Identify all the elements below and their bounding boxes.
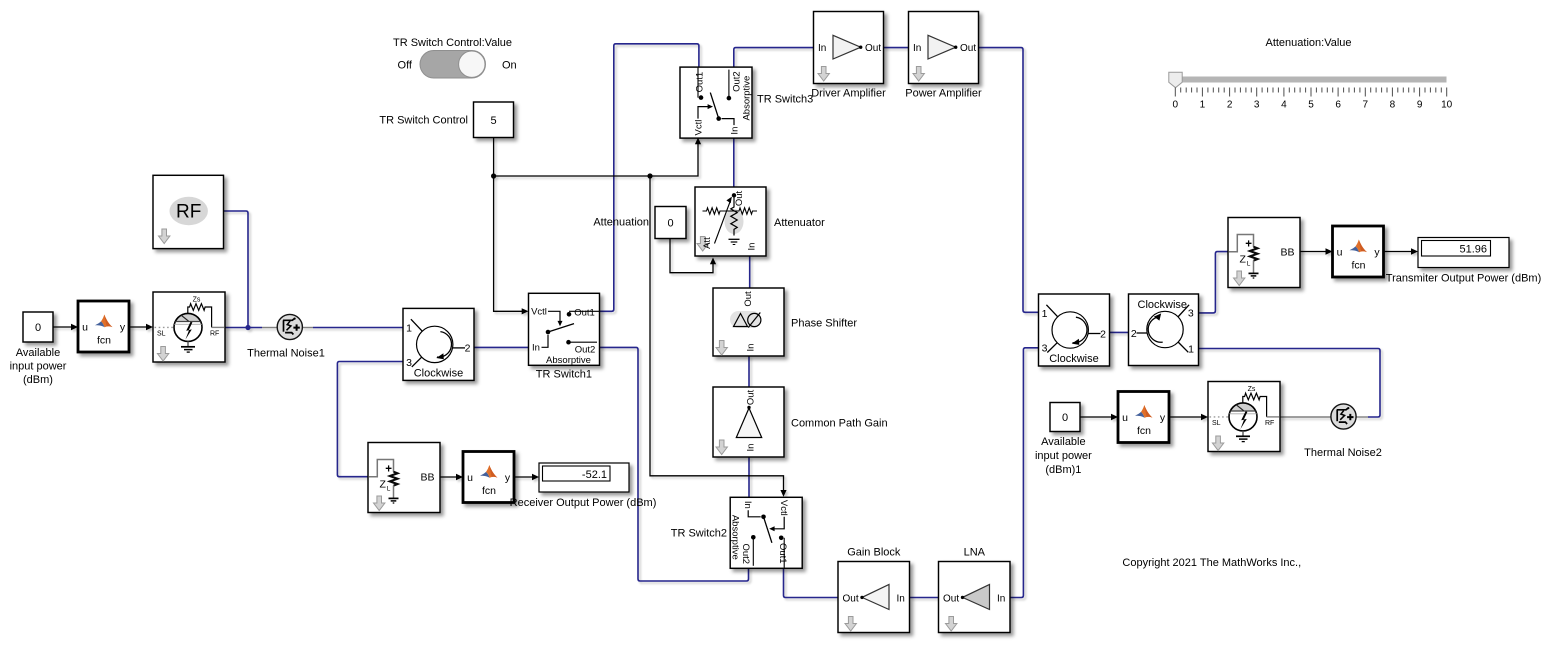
wire: fcn2 y to Receiver display — [514, 474, 539, 480]
svg-text:In: In — [997, 593, 1005, 604]
svg-text:0: 0 — [667, 218, 673, 230]
svg-text:Clockwise: Clockwise — [1138, 299, 1188, 311]
svg-text:10: 10 — [1441, 100, 1453, 111]
svg-text:In: In — [745, 344, 756, 352]
wire: TR Switch2 Out1 to Gain Block Out — [784, 568, 839, 598]
svg-text:Off: Off — [398, 60, 413, 72]
constant: TR Switch Control value 5 — [379, 102, 513, 138]
block: MATLAB Function fcn2 — [463, 452, 514, 503]
block: TR Switch1 — [529, 293, 600, 380]
block: Driver Amplifier — [811, 12, 886, 100]
svg-text:Attenuator: Attenuator — [774, 217, 825, 229]
block: Gain Block — [838, 546, 910, 632]
wire: fcn1 y to source1 SL — [129, 324, 153, 330]
svg-text:Out: Out — [865, 43, 881, 54]
block: Circulator1 Clockwise — [403, 308, 474, 380]
svg-text:Thermal Noise1: Thermal Noise1 — [247, 347, 325, 359]
block: Power Amplifier — [905, 12, 982, 100]
svg-text:On: On — [502, 60, 517, 72]
svg-text:input power: input power — [1035, 450, 1092, 462]
wire: TR Switch3 In to Attenuator Out — [733, 137, 735, 188]
constant: Available input power (dBm) value 0 — [10, 312, 67, 386]
svg-text:RF: RF — [176, 202, 201, 223]
svg-text:input power: input power — [10, 361, 67, 373]
svg-text:8: 8 — [1390, 100, 1396, 111]
block: Thermal Noise1 — [247, 314, 325, 359]
control: TR Switch Control:Value toggle — [393, 37, 517, 78]
wire: Driver Amplifier Out to Power Amplifier In — [884, 47, 909, 49]
svg-text:LNA: LNA — [964, 546, 986, 558]
wire: junction C to TR Switch3 Vctl — [650, 138, 701, 177]
wire: TR Switch3 Out2 to Driver Amplifier In — [734, 48, 814, 68]
block: TR Switch2 (rotated +90) — [671, 497, 802, 568]
svg-text:TR Switch Control: TR Switch Control — [379, 114, 468, 126]
junction B dot — [491, 173, 496, 178]
svg-text:Clockwise: Clockwise — [414, 368, 464, 380]
block: LNA — [939, 546, 1011, 632]
wire: Thermal Noise2 left gray segment to source2 RF — [1280, 416, 1331, 418]
svg-text:5: 5 — [1308, 100, 1314, 111]
wire: Power Amplifier Out to Circulator2 port 1 — [979, 48, 1039, 313]
svg-text:1: 1 — [1200, 100, 1206, 111]
block: Thermal Noise2 — [1304, 404, 1382, 459]
wire: TR Switch1 Out2 to TR Switch2 Out2 — [599, 347, 748, 581]
svg-text:Power Amplifier: Power Amplifier — [905, 87, 982, 99]
wire: Circulator2 port 2 to Circulator3 port 2 — [1109, 331, 1129, 333]
svg-text:4: 4 — [1281, 100, 1287, 111]
svg-text:Att: Att — [702, 237, 713, 249]
wire: junction C to TR Switch2 Vctl — [650, 176, 787, 497]
junction C dot — [647, 173, 652, 178]
svg-text:In: In — [897, 593, 905, 604]
block: Circulator2 Clockwise — [1039, 294, 1110, 366]
svg-text:In: In — [913, 43, 921, 54]
block: MATLAB Function fcn1 — [78, 301, 129, 352]
svg-text:Receiver Output Power (dBm): Receiver Output Power (dBm) — [510, 497, 657, 509]
block: Phase Shifter — [713, 288, 857, 356]
wire: TR Switch1 Out1 to TR Switch3 Out1 — [599, 44, 699, 312]
svg-text:(dBm)1: (dBm)1 — [1045, 464, 1081, 476]
wire: junction B to junction C — [494, 175, 650, 177]
wire: RF config block to node A — [224, 211, 249, 328]
attenuator variable arrow — [715, 193, 737, 243]
wire: junction B to TR Switch1 Vctl — [494, 176, 529, 314]
wire: Available input power to fcn1 — [53, 324, 78, 330]
svg-text:Out: Out — [960, 43, 976, 54]
block: source1 SL-to-RF converter — [153, 292, 225, 362]
wire: Thermal Noise1 to Circulator port 1 — [313, 327, 403, 329]
svg-text:TR Switch3: TR Switch3 — [757, 94, 813, 106]
svg-text:TR Switch Control:Value: TR Switch Control:Value — [393, 37, 512, 49]
svg-text:Thermal Noise2: Thermal Noise2 — [1304, 447, 1382, 459]
annotation: copyright — [1122, 557, 1301, 569]
svg-text:(dBm): (dBm) — [23, 374, 53, 386]
display: Transmiter Output Power (dBm) — [1386, 238, 1541, 285]
wire: TR Switch Control constant down to junction B — [493, 138, 495, 177]
block: BB load1 — [368, 443, 440, 513]
svg-text:1: 1 — [1188, 343, 1194, 355]
svg-text:Out: Out — [843, 593, 859, 604]
svg-text:2: 2 — [1131, 328, 1137, 340]
svg-text:3: 3 — [1254, 100, 1260, 111]
wire: LNA In to Circulator2 port 3 — [1010, 348, 1039, 598]
svg-text:In: In — [818, 43, 826, 54]
attenuator pi-network resistors — [703, 198, 757, 245]
block: Circulator3 Clockwise (mirrored) — [1129, 294, 1199, 366]
svg-text:Transmiter Output Power (dBm): Transmiter Output Power (dBm) — [1386, 273, 1541, 285]
svg-text:51.96: 51.96 — [1459, 244, 1487, 256]
svg-text:Attenuation:Value: Attenuation:Value — [1265, 37, 1351, 49]
svg-text:Attenuation: Attenuation — [593, 217, 649, 229]
svg-text:0: 0 — [35, 322, 41, 334]
svg-text:Clockwise: Clockwise — [1049, 353, 1099, 365]
wire: fcn4 y to source2 SL — [1170, 414, 1208, 420]
svg-text:TR Switch2: TR Switch2 — [671, 528, 727, 540]
svg-text:6: 6 — [1335, 100, 1341, 111]
display: Receiver Output Power (dBm) — [510, 463, 657, 509]
svg-text:Out: Out — [943, 593, 959, 604]
block: TR Switch3 (rotated -90) — [680, 67, 813, 138]
svg-text:0: 0 — [1062, 412, 1068, 424]
wire: Circulator1 port 3 to BB load1 — [337, 362, 403, 477]
wire: fcn3 y to Transmitter display — [1384, 248, 1418, 254]
wire: Available input power 1 to fcn4 u — [1080, 414, 1118, 420]
svg-text:7: 7 — [1363, 100, 1369, 111]
block: MATLAB Function fcn3 — [1333, 226, 1384, 277]
block: RF configuration — [153, 175, 224, 248]
svg-text:Out: Out — [743, 291, 754, 307]
svg-text:Out: Out — [745, 389, 756, 405]
wire: Thermal Noise1 to blue run (gray) — [302, 327, 314, 329]
svg-text:-52.1: -52.1 — [582, 469, 607, 481]
wire: Circulator3 port 1 to Thermal Noise2 (blue part) — [1199, 349, 1380, 418]
block: Attenuator (rotated) — [695, 187, 825, 256]
block: MATLAB Function fcn4 — [1118, 392, 1169, 443]
block: source2 SL-to-RF converter — [1208, 382, 1280, 452]
svg-text:5: 5 — [490, 115, 496, 127]
svg-text:Available: Available — [1041, 436, 1085, 448]
slider tick marks and numbers — [1173, 88, 1453, 111]
node A junction dot — [245, 325, 250, 330]
svg-text:Available: Available — [16, 347, 60, 359]
wire: BB load2 to fcn3 u — [1299, 248, 1333, 254]
svg-text:Common Path Gain: Common Path Gain — [791, 418, 888, 430]
svg-text:TR Switch1: TR Switch1 — [536, 368, 592, 380]
wire: Thermal Noise2 right gray segment — [1356, 416, 1368, 418]
svg-text:3: 3 — [1188, 308, 1194, 320]
wire: Attenuation constant to Attenuator Att — [670, 239, 716, 273]
svg-text:0: 0 — [1173, 100, 1179, 111]
block: Common Path Gain — [713, 387, 888, 457]
svg-text:Driver Amplifier: Driver Amplifier — [811, 87, 886, 99]
svg-text:In: In — [747, 243, 758, 251]
constant: Attenuation value 0 — [593, 207, 686, 239]
svg-text:Phase Shifter: Phase Shifter — [791, 318, 857, 330]
wire: source1 RF port to node A — [225, 327, 262, 329]
control: Attenuation:Value slider — [1169, 37, 1447, 88]
wire: Phase Shifter In to Common Path Gain Out — [748, 356, 750, 387]
wire: Gain Block In to LNA Out — [910, 597, 939, 599]
svg-text:In: In — [745, 444, 756, 452]
svg-text:9: 9 — [1417, 100, 1423, 111]
wire: Common Path Gain In to TR Switch2 In — [748, 457, 750, 497]
constant: Available input power (dBm)1 value 0 — [1035, 403, 1092, 477]
wire: Attenuator In to Phase Shifter Out — [749, 256, 751, 288]
wire: Circulator port 2 to TR Switch1 In — [474, 346, 529, 348]
wire: Circulator3 port 3 to BB load2 — [1199, 252, 1228, 313]
svg-text:Out: Out — [734, 190, 745, 206]
svg-text:Gain Block: Gain Block — [847, 546, 901, 558]
wire: BB load1 to fcn2 u — [440, 474, 463, 480]
block: BB load2 — [1228, 218, 1300, 288]
svg-text:2: 2 — [1227, 100, 1233, 111]
wire: node A to Thermal Noise1 (gray) — [262, 327, 278, 329]
svg-text:Copyright 2021 The MathWorks I: Copyright 2021 The MathWorks Inc., — [1122, 557, 1301, 569]
